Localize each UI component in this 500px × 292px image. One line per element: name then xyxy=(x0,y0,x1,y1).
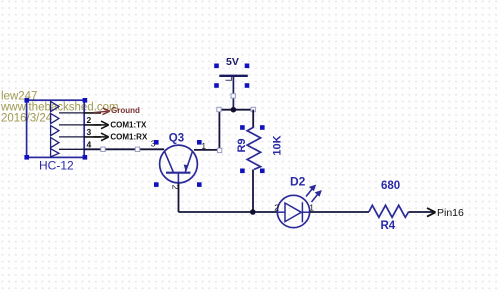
pin 3 line xyxy=(84,136,101,138)
transistor Q3 xyxy=(160,145,198,183)
wire R4 to Pin16 xyxy=(409,211,434,213)
wire grip xyxy=(101,147,105,151)
svg-text:D2: D2 xyxy=(290,175,306,189)
LED D2 xyxy=(277,195,309,227)
svg-text:HC-12: HC-12 xyxy=(39,158,74,172)
svg-text:680: 680 xyxy=(381,180,400,192)
COM1:TX arrow xyxy=(94,121,109,129)
svg-text:3: 3 xyxy=(87,127,92,137)
wire grip xyxy=(217,107,221,111)
wire D2 to R4 xyxy=(310,211,369,213)
COM1:RX arrow xyxy=(94,133,109,141)
wire grip xyxy=(135,147,139,151)
wire Q3 emitter down xyxy=(178,183,180,212)
junction dot xyxy=(231,107,237,113)
svg-text:2: 2 xyxy=(274,203,279,213)
wire riser up xyxy=(218,110,220,150)
connector HC-12 body xyxy=(27,100,85,157)
svg-text:4: 4 xyxy=(87,139,92,149)
Pin16 arrow xyxy=(427,208,436,217)
D2 emission arrows xyxy=(306,186,321,202)
pin 2 line xyxy=(84,124,101,126)
wire down to R9 xyxy=(252,110,254,128)
svg-text:5V: 5V xyxy=(226,56,239,68)
wire to junction xyxy=(219,109,253,111)
Q3 selection handles xyxy=(154,140,202,187)
resistor R9 xyxy=(247,127,260,170)
wire grip xyxy=(251,107,255,111)
HC-12 selection handles xyxy=(24,98,87,160)
pin 1 line (Ground) xyxy=(84,112,101,114)
5V selection handles xyxy=(214,64,249,88)
svg-text:2: 2 xyxy=(87,115,92,125)
svg-text:10K: 10K xyxy=(272,135,284,155)
svg-text:Q3: Q3 xyxy=(169,133,184,145)
resistor R4 xyxy=(369,205,409,217)
wire grip xyxy=(217,148,221,152)
svg-text:COM1:RX: COM1:RX xyxy=(110,133,148,142)
junction dot at R9/D2 node xyxy=(250,209,256,215)
power port 5V xyxy=(219,76,248,110)
wire grip on 5V stem xyxy=(231,94,235,98)
wire Q3 collector to vertical riser xyxy=(194,149,219,151)
svg-text:Ground: Ground xyxy=(111,106,140,115)
R9 selection handles xyxy=(240,125,265,173)
wire R9 bottom to node xyxy=(252,170,254,213)
svg-text:COM1:TX: COM1:TX xyxy=(110,120,147,129)
Ground net label arrow xyxy=(94,108,110,115)
wire HC-12 pin4 to Q3 base xyxy=(84,148,164,150)
Q3 emitter arrow xyxy=(184,165,189,171)
svg-text:Pin16: Pin16 xyxy=(437,207,464,219)
svg-text:R4: R4 xyxy=(381,220,396,232)
svg-text:R9: R9 xyxy=(236,138,248,152)
wire emitter to D2 xyxy=(178,211,277,213)
